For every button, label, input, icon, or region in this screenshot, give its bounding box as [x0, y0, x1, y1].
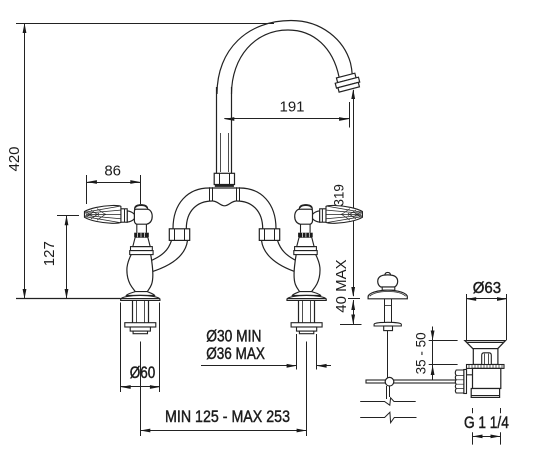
horizontal lever rod: [366, 380, 458, 383]
extension ticks 35-50: [429, 340, 458, 342]
dimension 60 line: [121, 386, 160, 388]
tee bottom wave: [212, 201, 237, 206]
svg-text:40 MAX: 40 MAX: [333, 259, 350, 312]
pop-up nut under washer: [384, 326, 393, 331]
dimension 319 vertical line: [353, 90, 355, 296]
pop-up dome flange: [368, 290, 407, 299]
valve base bell: [126, 292, 154, 296]
centre line right tap: [306, 342, 308, 437]
arrowhead left 191: [224, 117, 234, 121]
svg-text:420: 420: [6, 146, 23, 171]
svg-text:191: 191: [279, 99, 304, 116]
left tap threaded shank: [132, 300, 134, 322]
dimension 35-50 vertical line: [432, 327, 434, 380]
waste upper cylinder: [473, 349, 498, 365]
extension lines diameter 63: [466, 294, 468, 340]
right tap threaded shank: [298, 300, 300, 322]
left tap locknut: [125, 323, 156, 327]
dimension 30/36 line left part: [201, 365, 297, 367]
waste plug lug: [482, 353, 492, 365]
spout arc inner: [232, 30, 340, 94]
extension lines diameter 60: [120, 303, 122, 393]
down tube right outer: [278, 240, 298, 261]
svg-text:Ø63: Ø63: [473, 280, 501, 297]
dimension 86 line: [87, 182, 140, 184]
svg-text:Ø36 MAX: Ø36 MAX: [206, 345, 265, 363]
right tap locknut: [291, 323, 322, 327]
bonnet collar rings: [131, 247, 153, 251]
valve vase body: [127, 254, 153, 292]
arrowhead up 40MAX: [351, 300, 355, 310]
pop-up stem: [384, 299, 386, 323]
bridge arch left inner: [186, 201, 212, 229]
arrowhead down at 341: [431, 331, 435, 341]
extension line: top of spout (420 reference): [16, 23, 274, 25]
spout riser inner highlight lines: [220, 133, 222, 172]
knurled nut: [455, 370, 463, 393]
arrowheads 60: [121, 385, 131, 389]
bridge arch right outer: [240, 188, 276, 229]
down tube left outer: [149, 240, 172, 261]
knurled nut ring: [464, 370, 467, 394]
handle ball: [134, 209, 152, 224]
crystal lever: [85, 205, 121, 223]
bridge tee centre body: [209, 187, 239, 189]
down tube left inner: [150, 240, 188, 272]
svg-text:Ø60: Ø60: [130, 364, 156, 382]
svg-text:G 1 1/4: G 1 1/4: [464, 414, 509, 432]
dimension 191 line: [224, 118, 349, 120]
right valve body (mirror of left): [287, 205, 362, 301]
pop-up rod: [387, 331, 389, 378]
left valve body group: [85, 205, 160, 301]
arrowhead left 86: [87, 180, 97, 184]
bridge arch left outer: [173, 188, 209, 229]
dimension 127 vertical line: [66, 216, 68, 298]
spout riser pipe: [216, 87, 218, 174]
crystal facet lines: [84, 212, 86, 218]
svg-text:319: 319: [332, 184, 347, 206]
arrowhead down 319 (at deck): [351, 287, 355, 297]
extension line 86 left (crystal tip): [86, 175, 88, 204]
dimension 30/36 line right part: [317, 365, 331, 367]
dark band under nut: [215, 185, 234, 187]
valve stem: [137, 224, 147, 233]
dimension G 1 1/4 line: [473, 436, 501, 438]
dimension 40 MAX line: [353, 300, 355, 325]
dimension 63 line: [466, 298, 507, 300]
waste body: [473, 368, 501, 388]
deck tick at 319/40MAX line: [348, 298, 360, 300]
arrowhead up 319 (at spout outlet): [351, 89, 355, 99]
waste tailpiece: [471, 389, 499, 398]
bridge arch right inner: [237, 201, 263, 229]
break line 2: [360, 412, 416, 422]
crystal ferrule: [121, 209, 127, 222]
svg-text:MIN 125 - MAX 253: MIN 125 - MAX 253: [165, 408, 290, 426]
centre line left tap: [140, 342, 142, 437]
waste thread boss: [467, 368, 473, 374]
pop-up knob: [378, 275, 398, 287]
svg-text:86: 86: [104, 162, 121, 179]
extension line 191 right (spout outlet): [349, 102, 351, 128]
arrowhead down 127: [65, 289, 69, 299]
deck flange: [121, 295, 160, 300]
arrowhead right 86: [130, 180, 140, 184]
extension tick for 127 (handle axis): [57, 215, 79, 217]
waste flange cup: [465, 341, 506, 349]
pop-up washer flange: [374, 322, 401, 326]
dimension 420 vertical line: [24, 24, 26, 298]
knob collar: [382, 287, 395, 290]
arrowhead right 191: [339, 117, 349, 121]
svg-text:35 - 50: 35 - 50: [414, 332, 429, 374]
deck surface line left: [16, 298, 121, 300]
extension lines G 1 1/4: [472, 408, 474, 413]
arrowhead down 420: [23, 289, 27, 299]
svg-text:Ø30 MIN: Ø30 MIN: [206, 328, 261, 346]
svg-text:127: 127: [41, 241, 58, 266]
down tube right inner: [262, 240, 298, 272]
ball joint: [385, 377, 394, 386]
extension line 86 right (valve axis): [140, 175, 142, 204]
pop-up knob top bump: [385, 272, 391, 275]
hex union right: [259, 229, 279, 241]
knurled ring dark: [134, 233, 149, 238]
extension lines diameter 30/36: [296, 334, 298, 370]
ball top cap: [135, 205, 148, 210]
break line 1: [360, 398, 416, 405]
hex union left: [169, 229, 189, 241]
extension line max counter thickness: [340, 324, 362, 326]
rod below ball: [386, 386, 388, 399]
arrowhead down 40MAX: [351, 315, 355, 325]
spout arc outer: [217, 21, 352, 95]
lever neck: [127, 211, 134, 222]
dimension MIN 125 - MAX 253: [140, 430, 306, 432]
arrowhead up 420: [23, 23, 27, 33]
spout outlet tip: [334, 73, 361, 93]
hex nut on riser: [214, 173, 234, 184]
waste coupling flange (knurled): [467, 365, 505, 369]
arrowhead up at 364.5: [431, 365, 435, 375]
arrowhead up 127: [65, 215, 69, 225]
bonnet taper: [133, 237, 150, 246]
